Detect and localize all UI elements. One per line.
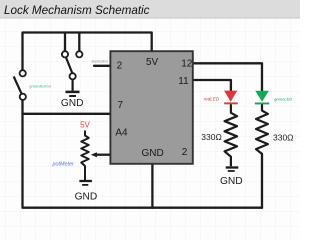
svg-text:GND: GND (61, 98, 84, 109)
wire stub blackButton right terminal (78, 33, 80, 52)
wire blackbutton stub to pin 2 (94, 65, 110, 67)
wire IC GND pin to ground rail (151, 164, 153, 208)
svg-text:2: 2 (182, 147, 188, 158)
blackButton left terminal (62, 51, 68, 57)
wire blackButton to ground (71, 79, 73, 90)
svg-text:greenLED: greenLED (274, 96, 292, 101)
svg-text:11: 11 (178, 76, 189, 87)
svg-text:GND: GND (220, 176, 243, 187)
potentiometer potMeter (81, 131, 89, 181)
svg-text:330Ω: 330Ω (201, 132, 222, 142)
resistor R1 330 red branch (225, 104, 237, 166)
svg-text:330Ω: 330Ω (273, 133, 294, 143)
svg-text:greenButton: greenButton (29, 84, 52, 89)
greenButton top terminal (20, 70, 26, 76)
wire greenButton bottom to ground rail (23, 100, 263, 208)
svg-text:GND: GND (142, 148, 164, 159)
greenButton lever (14, 77, 22, 95)
resistor R2 330 green branch (256, 104, 268, 154)
blackButton common terminal (70, 73, 76, 79)
ground blackButton (66, 92, 80, 96)
switch blackButton (62, 51, 83, 91)
svg-text:Lock Mechanism Schematic: Lock Mechanism Schematic (4, 4, 150, 17)
wire green branch resistor to ground rail (261, 154, 263, 208)
IC U1 Arduino (110, 51, 192, 164)
blackButton right terminal (76, 51, 82, 57)
LED redLED (224, 91, 238, 105)
wire to pin 7 (23, 113, 111, 115)
svg-text:blackbutton: blackbutton (92, 59, 109, 63)
svg-text:2: 2 (117, 61, 123, 72)
LED greenLED (255, 91, 269, 105)
svg-text:5V: 5V (146, 57, 159, 68)
svg-text:12: 12 (181, 58, 193, 69)
svg-text:A4: A4 (115, 128, 128, 139)
svg-text:potMeter: potMeter (52, 162, 74, 168)
svg-text:5V: 5V (80, 120, 90, 129)
wire top rail to 5V pin (23, 33, 152, 71)
title bar (0, 0, 300, 18)
blackButton lever (66, 58, 72, 74)
wire pin 12 to green LED (193, 63, 262, 91)
potMeter wiper wire to A4 (91, 152, 111, 157)
wire stub blackButton left terminal (64, 33, 66, 52)
wire pin 11 to red LED (193, 80, 231, 91)
svg-text:7: 7 (118, 100, 124, 111)
switch greenButton (14, 70, 26, 100)
ground red branch (226, 168, 239, 172)
ground potMeter (79, 181, 92, 185)
svg-text:redLED: redLED (204, 97, 220, 102)
svg-text:GND: GND (75, 191, 98, 202)
greenButton bottom terminal (20, 94, 26, 100)
